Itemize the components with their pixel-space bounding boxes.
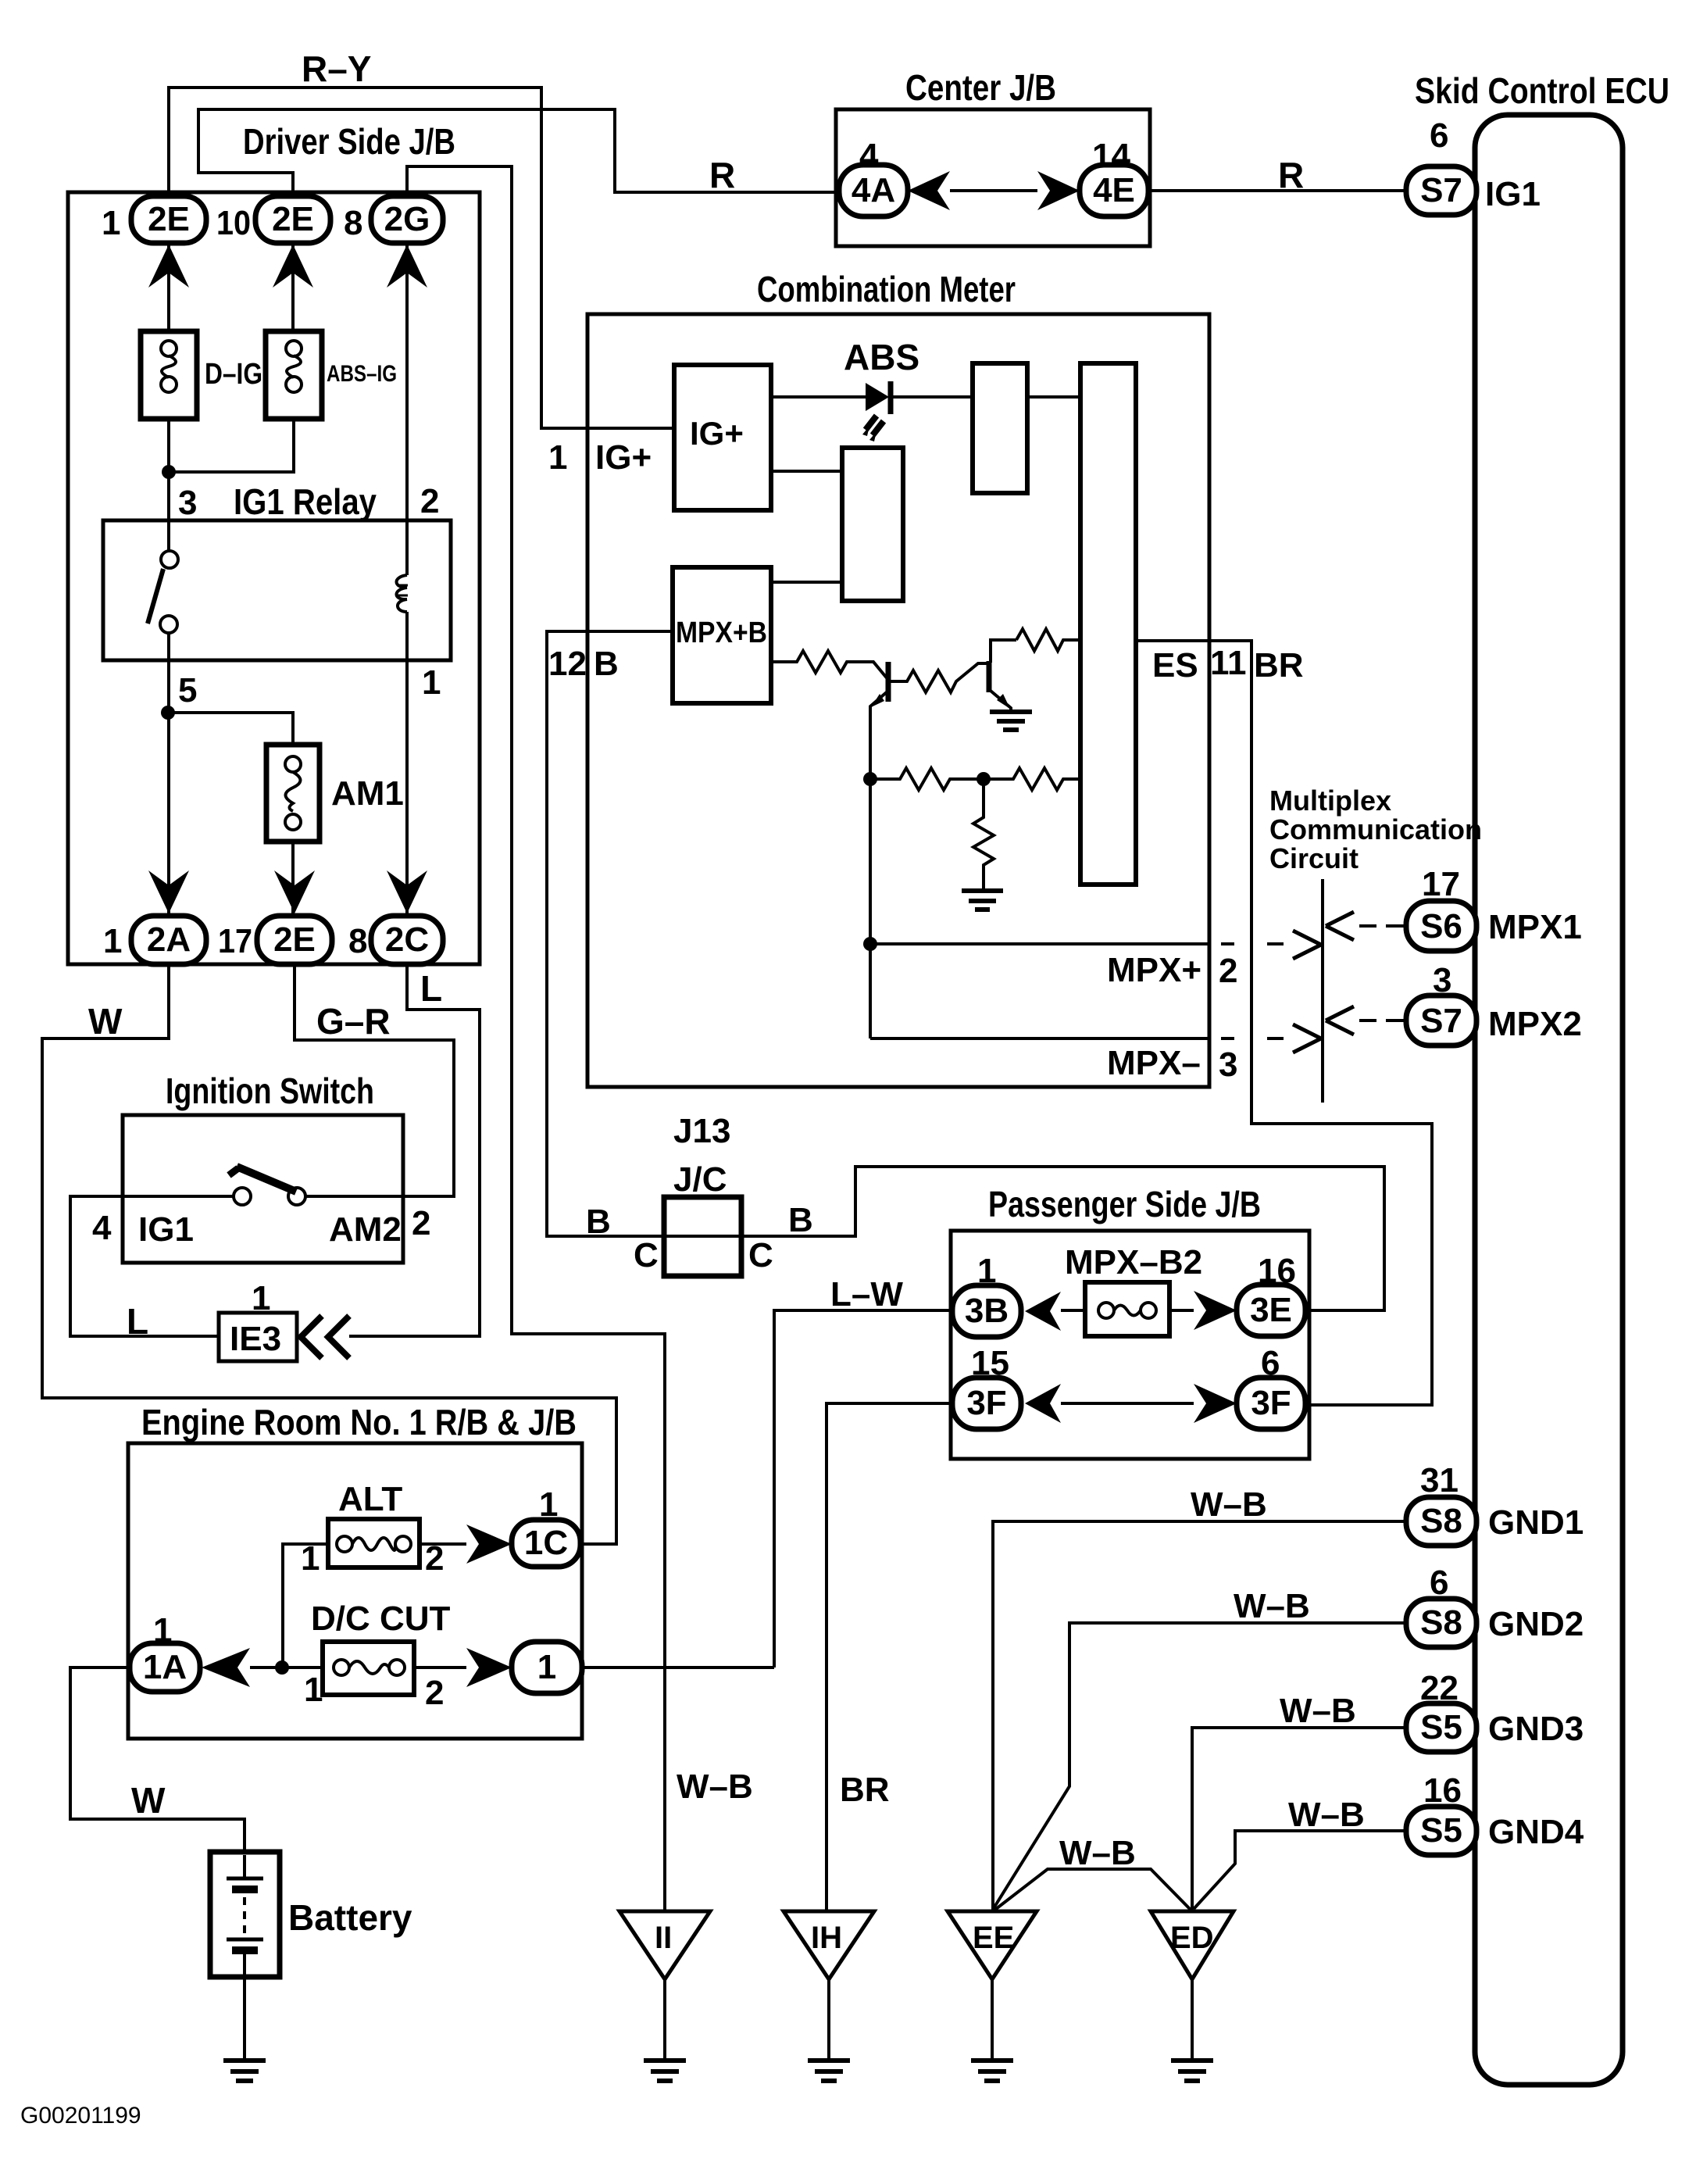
svg-text:3: 3: [178, 484, 197, 522]
svg-text:II: II: [655, 1921, 672, 1955]
wire LED to block: [892, 395, 973, 399]
svg-text:2: 2: [425, 1674, 444, 1712]
svg-text:Engine Room No. 1 R/B & J/B: Engine Room No. 1 R/B & J/B: [141, 1402, 577, 1442]
wire R-Y from 2E(1) up and over to combination meter IG+: [169, 88, 674, 428]
resistor R2 (Q1 to Q2): [888, 663, 989, 692]
connector 4A pin 4: [839, 165, 908, 216]
svg-text:IG1: IG1: [1485, 175, 1541, 213]
svg-text:B: B: [586, 1203, 611, 1241]
svg-text:1: 1: [103, 922, 122, 960]
svg-text:Battery: Battery: [288, 1897, 412, 1938]
connector 3F pin 15: [952, 1378, 1021, 1429]
wire MPX+B to mid block: [771, 581, 842, 584]
wire 3F to 3F: [1061, 1402, 1194, 1405]
svg-text:3E: 3E: [1250, 1291, 1292, 1329]
svg-text:12: 12: [548, 645, 587, 683]
svg-text:IH: IH: [811, 1921, 842, 1955]
male arrow into 1: [466, 1648, 512, 1687]
ground point ED: [1151, 1911, 1234, 1979]
svg-text:1: 1: [422, 663, 441, 702]
svg-text:R: R: [709, 155, 735, 195]
passenger J/B box: [951, 1231, 1309, 1459]
svg-text:17: 17: [218, 922, 252, 960]
svg-text:22: 22: [1420, 1669, 1459, 1707]
svg-text:S8: S8: [1420, 1603, 1462, 1642]
connector 2E pin 10: [255, 196, 330, 243]
wire G-R from 2E(17) to ignition switch AM2: [295, 964, 454, 1196]
svg-text:2: 2: [1219, 952, 1237, 990]
svg-text:Circuit: Circuit: [1269, 842, 1359, 874]
female arrow from 1A: [202, 1648, 250, 1687]
svg-text:Combination Meter: Combination Meter: [757, 269, 1016, 309]
svg-text:3: 3: [1219, 1046, 1237, 1084]
wire fuse to arrow: [1169, 1309, 1194, 1312]
svg-text:6: 6: [1261, 1344, 1280, 1382]
block driver (tall): [1080, 363, 1136, 885]
female arrow from 3B: [1025, 1292, 1061, 1331]
wire B from J13 up into MPX+B: [547, 631, 673, 1236]
battery: [210, 1852, 280, 1977]
svg-text:1: 1: [977, 1252, 996, 1290]
svg-text:2: 2: [420, 482, 439, 520]
wire BR from 3F(15) down to IH: [827, 1403, 952, 1911]
resistor R6 (pulldown): [973, 779, 994, 889]
ground point II: [619, 1911, 710, 1979]
wire B from J13 looping over label to 3E: [741, 1167, 1384, 1310]
fuse D-IG: [141, 331, 197, 419]
block (right of ABS lamp): [973, 363, 1027, 493]
svg-text:W–B: W–B: [1234, 1587, 1310, 1625]
connector 2G pin 8: [371, 196, 443, 243]
svg-text:3F: 3F: [1251, 1384, 1291, 1422]
svg-text:BR: BR: [840, 1771, 890, 1809]
female arrow from 4A: [908, 171, 950, 210]
block MPX+B: [673, 567, 771, 703]
svg-text:2: 2: [412, 1204, 430, 1242]
junction node ALT/DC row: [275, 1660, 289, 1675]
wire MPX-: [870, 1037, 1209, 1040]
svg-text:4A: 4A: [852, 171, 895, 209]
Center J/B box: [836, 109, 1150, 246]
connector 2C pin 8: [371, 916, 443, 964]
svg-text:B: B: [594, 645, 619, 683]
svg-text:14: 14: [1092, 137, 1130, 175]
junction node R5: [977, 772, 991, 786]
svg-text:G–R: G–R: [316, 1001, 391, 1042]
switch contacts: [234, 1188, 251, 1205]
svg-text:MPX+: MPX+: [1107, 951, 1201, 989]
male arrow into 2E(10): [273, 245, 313, 288]
svg-text:4E: 4E: [1093, 171, 1135, 209]
male arrow into 2G(8): [387, 245, 427, 288]
block IG+: [674, 365, 771, 510]
wire ALT to 1C arrow: [420, 1542, 466, 1546]
svg-text:S6: S6: [1420, 907, 1462, 945]
relay coil: [405, 520, 409, 575]
wire IG1 contact to IE3: [70, 1196, 234, 1336]
svg-text:MPX2: MPX2: [1488, 1005, 1582, 1043]
svg-text:GND3: GND3: [1488, 1710, 1584, 1748]
arrow MPX- into mpx circuit: [1293, 1024, 1321, 1053]
svg-text:Communication: Communication: [1269, 813, 1482, 845]
fuse ABS-IG: [266, 331, 322, 419]
arrow from S6 into bus: [1326, 912, 1354, 940]
svg-text:3B: 3B: [965, 1292, 1009, 1330]
arrow MPX+ into mpx circuit: [1293, 931, 1321, 959]
IE3 double chevron: [301, 1316, 322, 1358]
svg-text:16: 16: [1423, 1771, 1462, 1810]
svg-text:15: 15: [971, 1344, 1009, 1382]
svg-text:Ignition Switch: Ignition Switch: [166, 1071, 374, 1111]
svg-text:2E: 2E: [272, 200, 314, 238]
svg-text:G00201199: G00201199: [20, 2103, 141, 2129]
svg-text:S8: S8: [1420, 1502, 1462, 1540]
svg-text:MPX–: MPX–: [1107, 1044, 1201, 1082]
male arrow into 1C: [466, 1525, 512, 1564]
wire IG+ to LED: [771, 395, 867, 399]
transistor Q1: [886, 662, 891, 702]
ground point IH: [784, 1911, 874, 1979]
mpx circuit bus line: [1321, 879, 1324, 1103]
svg-text:L: L: [127, 1301, 148, 1342]
svg-text:GND2: GND2: [1488, 1605, 1584, 1643]
connector S8 pin 31 GND1: [1406, 1497, 1476, 1546]
svg-text:L: L: [420, 968, 442, 1009]
svg-text:BR: BR: [1254, 646, 1304, 685]
ground point EE: [948, 1911, 1037, 1979]
connector S7 pin 6 IG1: [1406, 166, 1476, 215]
svg-text:C: C: [748, 1236, 773, 1274]
svg-text:W–B: W–B: [1059, 1834, 1136, 1872]
wire 2G to relay coil pin 2: [405, 243, 409, 520]
wire 2E(1) to D-IG fuse: [167, 243, 170, 331]
svg-text:2G: 2G: [384, 200, 430, 238]
svg-text:ABS–IG: ABS–IG: [327, 361, 397, 387]
ground battery: [223, 2061, 266, 2081]
wire W-B GND3 to ED: [1192, 1728, 1405, 1911]
wire MPX+: [870, 942, 1209, 945]
female arrow from 3F(15): [1025, 1384, 1061, 1423]
svg-text:ES: ES: [1152, 646, 1198, 685]
svg-text:IG1: IG1: [138, 1210, 194, 1249]
dashes S7 to bus: [1359, 1019, 1405, 1022]
male arrow into 4E: [1037, 171, 1080, 210]
svg-text:1: 1: [153, 1611, 172, 1650]
connector 1: [512, 1642, 582, 1693]
svg-text:31: 31: [1420, 1461, 1459, 1499]
svg-text:1A: 1A: [143, 1648, 187, 1686]
connector 2A pin 1: [131, 916, 206, 964]
junction node: [162, 465, 176, 479]
wire B through J13: [664, 1235, 741, 1238]
engine room box: [128, 1443, 582, 1739]
transistor Q2: [987, 661, 992, 692]
connector S8 pin 6 GND2: [1406, 1599, 1476, 1647]
svg-text:MPX–B2: MPX–B2: [1065, 1243, 1202, 1281]
svg-text:8: 8: [344, 204, 362, 242]
wire L from 2C to IE3: [349, 964, 480, 1336]
relay switch lever: [148, 569, 163, 624]
svg-text:IE3: IE3: [230, 1320, 281, 1358]
svg-text:AM1: AM1: [331, 774, 404, 813]
svg-text:17: 17: [1422, 865, 1460, 903]
wire D-IG fuse to relay pin 3: [167, 419, 170, 520]
svg-text:8: 8: [348, 922, 367, 960]
arrow from S7 into bus: [1326, 1006, 1354, 1035]
svg-text:ED: ED: [1170, 1921, 1214, 1955]
wire 1A row to D/C CUT: [250, 1666, 323, 1669]
svg-text:3: 3: [1433, 961, 1451, 999]
svg-text:S7: S7: [1420, 171, 1462, 209]
wire R from 4E to ECU S7: [1148, 189, 1406, 192]
connector 4E pin 14: [1080, 165, 1148, 216]
svg-text:10: 10: [216, 204, 251, 242]
svg-text:S5: S5: [1420, 1811, 1462, 1850]
wire ES/BR from driver block to 3F(6): [1136, 641, 1432, 1405]
svg-text:D/C CUT: D/C CUT: [311, 1600, 451, 1638]
dashes S6 to bus: [1359, 924, 1405, 928]
male arrow into 2E(17): [274, 870, 315, 913]
wire D/C CUT to 1: [414, 1666, 466, 1669]
svg-text:GND4: GND4: [1488, 1813, 1584, 1851]
svg-text:R–Y: R–Y: [302, 48, 371, 89]
ground Q2: [990, 712, 1032, 730]
svg-text:ABS: ABS: [844, 337, 919, 377]
wire battery to ground: [243, 1977, 246, 2061]
wire R from 2E(10) loop around Driver Side J/B label to Center J/B 4A: [198, 109, 839, 196]
svg-text:W: W: [88, 1001, 123, 1042]
fuse ALT: [328, 1519, 420, 1567]
svg-text:6: 6: [1430, 116, 1448, 155]
wire relay pin 5 down to 2A: [167, 660, 170, 916]
svg-text:4: 4: [859, 137, 879, 175]
svg-text:1: 1: [102, 204, 120, 242]
junction node pin5/AM1: [161, 706, 175, 720]
svg-text:J/C: J/C: [673, 1160, 727, 1199]
svg-text:3F: 3F: [966, 1384, 1006, 1422]
wire ALT to main row: [283, 1544, 328, 1667]
wire W-B ground from 2G down to II triangle: [407, 166, 665, 1911]
svg-text:1: 1: [539, 1485, 558, 1524]
wire to fuse: [1061, 1309, 1085, 1312]
wire 1 to L-W riser: [582, 1666, 774, 1669]
wire W-B GND4 to ED: [1194, 1831, 1405, 1909]
svg-text:EE: EE: [973, 1921, 1014, 1955]
junction node Q1 emitter row: [863, 772, 877, 786]
connector 2E pin 1: [131, 196, 206, 243]
svg-text:Center J/B: Center J/B: [905, 67, 1056, 108]
svg-text:2E: 2E: [148, 200, 190, 238]
connector 3E pin 16: [1237, 1285, 1305, 1336]
connector S6 pin 17 MPX1: [1406, 901, 1476, 951]
male arrow into 3F(6): [1194, 1384, 1237, 1423]
wire W from 2A around to Engine Room 1C frame: [42, 964, 616, 1544]
svg-text:Driver Side J/B: Driver Side J/B: [243, 121, 455, 162]
svg-text:16: 16: [1258, 1252, 1296, 1290]
svg-text:MPX1: MPX1: [1488, 908, 1582, 946]
svg-text:2A: 2A: [147, 920, 191, 959]
male arrow into 2A: [148, 870, 189, 913]
svg-text:6: 6: [1430, 1564, 1448, 1602]
junction node MPX+: [863, 937, 877, 951]
svg-text:ALT: ALT: [338, 1480, 402, 1518]
male arrow into 2C: [387, 870, 427, 913]
svg-text:2E: 2E: [273, 920, 316, 959]
connector 3B pin 1: [952, 1285, 1021, 1337]
svg-text:IG+: IG+: [595, 438, 652, 477]
svg-text:1: 1: [304, 1671, 323, 1709]
wire MPX node vertical: [869, 779, 872, 1038]
Driver Side J/B box: [68, 192, 480, 964]
connector S5 pin 22 GND3: [1406, 1703, 1476, 1752]
svg-text:11: 11: [1210, 644, 1247, 682]
wire W-B GND2 to EE: [994, 1623, 1405, 1908]
connector S5 pin 16 GND4: [1406, 1807, 1476, 1855]
ground R6: [962, 891, 1003, 910]
resistor R1 (base feed): [771, 651, 888, 680]
male arrow into 3E: [1194, 1291, 1237, 1330]
IG1 Relay box: [103, 520, 451, 660]
svg-text:S7: S7: [1420, 1002, 1462, 1040]
connector 1A pin 1: [130, 1643, 200, 1692]
wire ABS-IG fuse joins at node: [169, 419, 294, 472]
wire AM1 to 2E(17): [291, 842, 295, 916]
wire IG+ to mid block: [771, 470, 842, 473]
svg-text:5: 5: [178, 671, 197, 710]
svg-text:D–IG: D–IG: [205, 358, 262, 391]
svg-text:R: R: [1278, 155, 1304, 195]
wire 2E(10) to ABS-IG fuse: [291, 243, 295, 331]
wire L-W from engine room 1 up to 3B: [774, 1310, 952, 1667]
ignition switch box: [123, 1115, 403, 1263]
svg-text:1C: 1C: [524, 1524, 568, 1562]
svg-text:W–B: W–B: [1191, 1485, 1267, 1524]
junction connector J13 box: [664, 1197, 741, 1276]
resistor R3 (Q2 collector): [1016, 629, 1080, 651]
svg-text:W–B: W–B: [1288, 1796, 1365, 1834]
fuse D/C CUT: [323, 1642, 414, 1695]
svg-text:L–W: L–W: [830, 1275, 903, 1314]
resistor row R4 R5: [870, 768, 1080, 790]
svg-text:1: 1: [548, 438, 567, 477]
svg-text:W: W: [131, 1780, 166, 1821]
wire relay coil pin 1 down to 2C: [405, 660, 409, 916]
svg-text:IG+: IG+: [690, 415, 744, 452]
combination meter box: [587, 314, 1209, 1087]
svg-text:AM2: AM2: [329, 1210, 402, 1249]
wire W-B GND1 from EE riser: [993, 1521, 1405, 1911]
svg-text:GND1: GND1: [1488, 1503, 1584, 1542]
svg-text:C: C: [634, 1236, 659, 1274]
wire 4A to 4E: [950, 189, 1037, 192]
connector IE3: [219, 1313, 297, 1361]
svg-text:Skid Control ECU: Skid Control ECU: [1415, 70, 1669, 111]
svg-text:Multiplex: Multiplex: [1269, 785, 1391, 817]
relay switch contacts: [167, 520, 170, 551]
svg-text:1: 1: [537, 1648, 556, 1686]
wire branch to AM1 fuse: [168, 713, 293, 745]
wire W-B linking EE and ED: [993, 1869, 1192, 1911]
wire W battery feed: [70, 1667, 245, 1852]
svg-text:J13: J13: [673, 1112, 730, 1150]
connector 3F pin 6: [1237, 1378, 1305, 1429]
svg-text:2C: 2C: [385, 920, 429, 959]
wire block to driver block: [1027, 395, 1080, 399]
connector 2E pin 17: [257, 916, 332, 964]
svg-text:Passenger Side J/B: Passenger Side J/B: [988, 1184, 1261, 1224]
LED ABS warning lamp: [866, 383, 889, 411]
svg-text:S5: S5: [1420, 1708, 1462, 1746]
svg-text:W–B: W–B: [677, 1768, 753, 1806]
fuse MPX-B2: [1085, 1282, 1169, 1336]
connector S7 pin 3 MPX2: [1406, 995, 1476, 1046]
ECU box: [1475, 115, 1623, 2085]
connector 1C pin 1: [512, 1520, 580, 1567]
svg-text:MPX+B: MPX+B: [676, 617, 767, 649]
fuse AM1: [266, 745, 320, 842]
svg-text:W–B: W–B: [1280, 1692, 1356, 1730]
block mid: [842, 448, 903, 601]
svg-text:4: 4: [92, 1209, 112, 1247]
svg-text:IG1 Relay: IG1 Relay: [234, 481, 377, 522]
male arrow into 2E(1): [148, 245, 189, 288]
svg-text:B: B: [788, 1201, 813, 1239]
switch lever: [237, 1167, 296, 1192]
